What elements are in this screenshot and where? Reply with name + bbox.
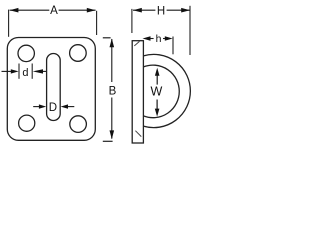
dimension B line upper	[111, 39, 113, 82]
dimension d extension line right	[31, 64, 33, 79]
dimension A line	[10, 9, 96, 11]
dimension B line lower	[111, 98, 113, 139]
svg-text:d: d	[22, 67, 28, 79]
dimension W up arrow	[156, 75, 158, 85]
center slot	[47, 54, 61, 121]
eye ring inner arc (side view)	[143, 65, 179, 118]
dimension H line	[133, 9, 190, 11]
svg-text:B: B	[109, 85, 117, 97]
hole bottom-right	[70, 116, 87, 133]
dimension B arrow down	[110, 130, 115, 139]
hole bottom-left	[19, 115, 35, 131]
dimension d left arrow and shaft	[2, 70, 12, 72]
dimension B extension tick bottom	[103, 140, 113, 142]
dimension H extension line left	[131, 9, 133, 33]
svg-text:A: A	[50, 5, 58, 17]
dimension A arrow left	[10, 8, 19, 13]
hole top-left	[18, 45, 34, 61]
side plate top corner hatch	[134, 41, 139, 46]
dimension B extension tick top	[103, 37, 111, 39]
dimension B arrow up	[110, 39, 115, 48]
svg-text:W: W	[150, 85, 162, 99]
dimension H arrow right	[181, 8, 190, 13]
front-view plate outline	[7, 38, 95, 141]
dimension d right arrow and shaft	[43, 70, 47, 72]
svg-text:H: H	[157, 6, 165, 18]
dimension A extension line left	[8, 10, 10, 37]
dimension h right extension line	[172, 37, 174, 55]
dimension W down arrow	[156, 100, 158, 110]
svg-text:h: h	[156, 33, 162, 45]
dimension H arrow left	[133, 8, 142, 13]
hole top-right	[70, 45, 87, 62]
dimension h left arrow and shaft	[150, 38, 153, 40]
dimension D right arrow and shaft	[68, 106, 75, 108]
eye ring outer arc (side view)	[143, 54, 190, 127]
dimension A extension line right	[96, 11, 98, 35]
dimension H extension line right	[189, 6, 191, 55]
dimension h right arrow and shaft	[163, 38, 166, 40]
dimension D left arrow and shaft	[33, 106, 39, 108]
dimension A arrow right	[87, 8, 96, 13]
side plate bottom corner hatch	[135, 131, 141, 137]
svg-text:D: D	[49, 102, 57, 114]
dimension d extension line left	[18, 64, 20, 79]
side-view plate	[132, 41, 143, 143]
